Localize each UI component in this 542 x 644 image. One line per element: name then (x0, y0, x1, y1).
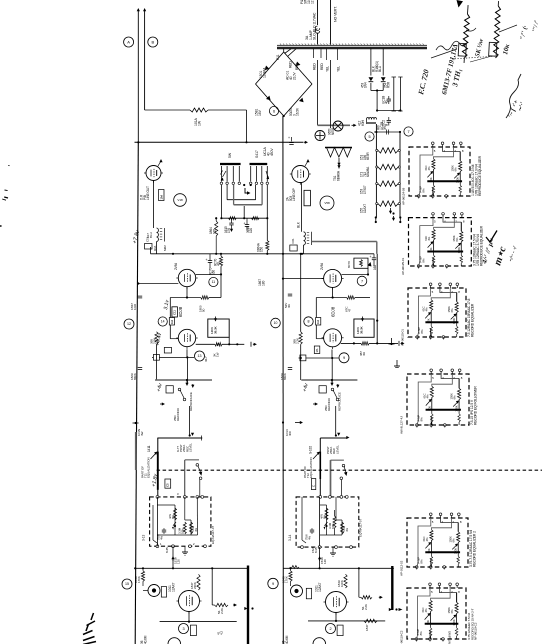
heater winding T51 (325, 147, 352, 149)
wire bus drop RED2 (320, 49, 322, 59)
transformer T1 secondary bus (277, 47, 427, 49)
wire cathode bus R (299, 357, 339, 359)
bridge rectifier D1-D4 diamond (256, 52, 284, 84)
wire V6B cathode down (301, 183, 303, 232)
terminal circle 10 (271, 318, 281, 328)
svg-text:NO VERT.: NO VERT. (334, 6, 338, 22)
node module column a (392, 212, 394, 214)
potentiometer 1411 R (319, 438, 321, 497)
svg-text:9: 9 (343, 356, 345, 360)
svg-text:YEL: YEL (337, 66, 341, 72)
wire heater grey horiz (318, 124, 351, 126)
svg-text:RECORD EQUALIZER 2: RECORD EQUALIZER 2 (473, 531, 477, 567)
choke L1 412 60H (367, 118, 377, 120)
resistor 67C inline R (347, 296, 355, 299)
svg-text:+: + (370, 255, 372, 259)
svg-text:7: 7 (361, 279, 363, 283)
svg-text:S417: S417 (255, 150, 259, 158)
svg-text:2: 2 (329, 627, 331, 631)
component box stage3 R (311, 479, 315, 490)
resistor 1864 120 (215, 221, 218, 236)
resistor 2.2K cathode R (299, 332, 302, 345)
plug-in equalizer module 5 (407, 518, 468, 567)
switch REC/PB L contact b (183, 398, 186, 401)
svg-text:6%: 6% (454, 167, 458, 172)
arrow B+ to stage1 R (319, 558, 321, 562)
svg-text:40: 40 (385, 100, 389, 104)
terminal circle 12 (124, 319, 134, 329)
svg-text:12: 12 (127, 322, 131, 326)
lamp V5 cross circle (315, 131, 325, 141)
tube V1B (178, 329, 195, 346)
wire lamp to heater winding (330, 60, 332, 128)
stray mark left edge 2 (5, 189, 8, 192)
switch S1 wafer bar b (250, 163, 268, 165)
svg-text:450V: 450V (270, 148, 274, 156)
svg-text:4%: 4% (425, 394, 429, 399)
resistor 56 2.2K R (361, 596, 372, 599)
svg-text:3: 3 (182, 627, 184, 631)
svg-text:M22: M22 (163, 245, 167, 251)
plug-in equalizer module 3 (408, 288, 466, 337)
svg-text:6%: 6% (455, 237, 459, 242)
svg-text:RED: RED (320, 63, 324, 70)
svg-text:BLK: BLK (297, 221, 301, 228)
wire switch bus (221, 217, 267, 219)
svg-text:100K: 100K (340, 579, 344, 587)
svg-text:100K: 100K (452, 619, 456, 626)
wire stage1 drop R (358, 568, 360, 597)
thick output bar L (247, 566, 249, 644)
diode D51 (369, 77, 374, 81)
svg-text:60H: 60H (361, 120, 365, 126)
svg-text:17L: 17L (315, 348, 319, 353)
svg-text:AP-96115-01: AP-96115-01 (401, 329, 405, 346)
svg-text:8%: 8% (323, 514, 327, 519)
pencil sketch resistor 1 (462, 5, 471, 63)
capacitor 8C70 160 (208, 260, 212, 262)
terminal circle 6 (269, 106, 278, 115)
wire cathode chain L (154, 254, 156, 282)
switch S1 inner staircase black (226, 185, 228, 200)
svg-text:4%: 4% (194, 527, 198, 532)
pencil sketch arrowhead (457, 0, 464, 8)
component box input R (306, 588, 311, 599)
capacitor 8C70 160 R (373, 254, 375, 258)
eq resistor 3.3M (183, 522, 186, 534)
node on B+ line (245, 141, 247, 143)
handwriting long scrawl (506, 74, 521, 118)
plug-in equalizer module 4 (407, 374, 469, 425)
svg-text:4%: 4% (345, 527, 349, 532)
svg-text:4%: 4% (424, 608, 428, 613)
svg-text:8C?0: 8C?0 (347, 261, 351, 268)
svg-text:N/T&&WS: N/T&&WS (448, 631, 452, 644)
pencil sketch box 1 (458, 43, 466, 56)
svg-text:4%: 4% (427, 166, 431, 171)
switch S1 inner arrow (245, 188, 249, 193)
plate load box R (354, 258, 368, 268)
svg-text:AA-96119-C2: AA-96119-C2 (400, 630, 404, 644)
wire vertical rail to terminal A (137, 9, 139, 142)
switch REC/PB R contact b (336, 398, 339, 401)
svg-text:EQ-NA117-07: EQ-NA117-07 (359, 519, 363, 537)
wire grid chain R (315, 298, 317, 339)
svg-text:176: 176 (227, 228, 231, 233)
svg-text:10: 10 (274, 321, 278, 325)
wire stage1 drop L (211, 568, 213, 605)
wire stage1 top line L (135, 567, 247, 569)
stray mark left edge 3 (0, 225, 2, 227)
svg-text:C51: C51 (146, 237, 150, 242)
svg-text:RECORD EQUALIZER: RECORD EQUALIZER (471, 303, 475, 337)
wire stage1 bottom L (160, 621, 237, 623)
plug-in equalizer module 6 (407, 588, 466, 639)
component box T3 (290, 245, 297, 251)
switch ganging dashed line (157, 469, 542, 471)
input jack L (148, 585, 160, 597)
svg-text:120: 120 (323, 559, 327, 564)
resistor 1849 100K R (344, 574, 347, 588)
svg-text:100K: 100K (455, 405, 459, 412)
svg-text:RECORD: RECORD (327, 397, 331, 411)
svg-text:C5: C5 (166, 483, 170, 487)
wire cathode bus L (152, 356, 194, 358)
svg-text:1M: 1M (159, 195, 163, 200)
svg-text:160: 160 (373, 265, 377, 270)
arrow B+ to stage1 L (172, 558, 174, 562)
switch S1 wire left drop (220, 185, 222, 218)
resistor 56 2.2K L (215, 603, 229, 606)
resistor box stage5 L (159, 190, 165, 201)
svg-text:+: + (288, 136, 290, 140)
tube type box 6DJ8 (172, 307, 178, 317)
capacitor 1615 (229, 222, 233, 224)
wire bus drop to D51 (370, 49, 372, 76)
svg-text:C: C (311, 485, 315, 487)
svg-text:RECORD: RECORD (176, 407, 180, 421)
wire grey out T3 (312, 241, 377, 243)
eq resistor 70K (174, 508, 177, 520)
svg-text:6%: 6% (452, 538, 456, 543)
wire bus drop YEL (326, 49, 328, 61)
svg-text:YEL: YEL (326, 66, 330, 72)
wire left rail (135, 142, 138, 644)
handwriting dash line (431, 49, 457, 58)
svg-text:RED: RED (313, 63, 317, 70)
eq resistor 3.3M R (333, 516, 336, 528)
wire V1B plate out (196, 343, 215, 345)
terminal circle 11 (209, 277, 218, 286)
wire T2 to mid line (156, 242, 158, 254)
svg-text:REPRODUCE EQUALIZER: REPRODUCE EQUALIZER (478, 155, 482, 196)
tube V4A (326, 592, 347, 613)
svg-text:4%: 4% (427, 236, 431, 241)
resistor inline bus a (229, 217, 237, 220)
svg-text:3-14: 3-14 (288, 535, 292, 541)
svg-text:40.6M: 40.6M (143, 635, 147, 644)
svg-text:17907: 17907 (363, 185, 367, 194)
svg-text:15: 15 (125, 582, 129, 586)
resistor mid bottom R (290, 566, 299, 569)
svg-text:EQUALIZATION: EQUALIZATION (309, 457, 313, 478)
svg-text:3-13: 3-13 (142, 535, 146, 541)
ladder resistor R151 (378, 148, 398, 153)
svg-text:+: + (244, 222, 246, 226)
potentiometer 1411 L (157, 438, 159, 497)
component box stage4 R (316, 318, 321, 326)
switch S1 contacts (220, 166, 222, 182)
eq box L terminals bottom (156, 545, 159, 548)
svg-text:C11: C11 (173, 310, 177, 315)
arrow stage1 R (379, 596, 382, 598)
svg-text:16V: 16V (258, 109, 262, 116)
svg-text:210V: 210V (292, 72, 296, 80)
arrow down grid (186, 381, 188, 385)
eq pot arrow L (173, 522, 176, 526)
wire right drop to hline (266, 218, 268, 240)
svg-text:12AX7: 12AX7 (318, 582, 322, 592)
svg-text:8%: 8% (420, 329, 424, 334)
terminal circle B (148, 37, 158, 47)
eq resistor 5.2K (190, 522, 193, 534)
wire switch level R (331, 459, 344, 461)
svg-text:AW-9L127-4J: AW-9L127-4J (400, 416, 404, 434)
ground eq R (332, 547, 334, 553)
wire V3B plate out (341, 342, 361, 344)
wire eq inner drop L (156, 543, 158, 546)
arrow into bar R (389, 609, 391, 611)
node module column b (390, 343, 392, 345)
svg-text:13: 13 (198, 354, 202, 358)
resistor 1864A 150 (266, 241, 269, 251)
diode D52 (381, 77, 386, 81)
tube circle V1B small (174, 194, 187, 207)
svg-text:2.2K: 2.2K (153, 337, 157, 344)
wire V1B cathode down (186, 349, 188, 357)
component box rec eq L (166, 386, 173, 393)
svg-text:NE51: NE51 (331, 127, 335, 135)
wire V3B cathode down R (331, 350, 333, 359)
wire feedback right edge down L (228, 337, 230, 344)
svg-text:1N4: 1N4 (364, 82, 368, 88)
svg-text:EQ-NA117-07: EQ-NA117-07 (211, 526, 215, 544)
wire V1A cathode line (186, 287, 188, 298)
wire V3A cathode (332, 287, 334, 297)
svg-text:47: 47 (348, 308, 352, 312)
terminal circle 9 mid (268, 578, 278, 588)
svg-text:220K: 220K (193, 581, 197, 589)
svg-text:LEVEL: LEVEL (188, 443, 192, 452)
capacitor coupling R (288, 293, 292, 295)
switch REC/PB R contact a (331, 388, 334, 391)
feedback box R (354, 319, 374, 337)
arrow stage4 out L (253, 343, 256, 345)
svg-text:B: B (385, 124, 389, 126)
svg-text:2.2K: 2.2K (364, 603, 368, 610)
eq small cap (162, 529, 166, 531)
tube V6B (292, 166, 309, 183)
switch S1 wire right drop (266, 185, 268, 218)
resistor 2.2K cathode (155, 332, 158, 345)
wire eq out R (319, 547, 321, 568)
wire bus drop to D52 (382, 49, 384, 76)
svg-text:RECORD EQ FOLLOWER: RECORD EQ FOLLOWER (474, 386, 478, 425)
wire bus drop RED (312, 49, 314, 59)
svg-text:8.35: 8.35 (165, 547, 169, 553)
svg-text:8: 8 (308, 320, 310, 324)
handwriting dotted underline (452, 56, 498, 59)
svg-text:38.3K: 38.3K (214, 325, 218, 334)
resistor 1848 170K L (141, 571, 144, 582)
wire pot top line R (320, 437, 347, 439)
wire B+ horizontal line (135, 141, 304, 143)
svg-text:5W: 5W (228, 152, 232, 158)
wire jack ground L (153, 597, 155, 622)
wire pot top line L (157, 437, 202, 439)
arrow into bar L (245, 608, 247, 610)
svg-text:8%: 8% (420, 417, 424, 422)
wire AC line input (330, 0, 332, 45)
svg-text:2.2K: 2.2K (296, 337, 300, 344)
svg-text:6%: 6% (450, 308, 454, 313)
wire plate V3A right (342, 274, 368, 276)
wire ladder right rail (399, 132, 401, 218)
tube circle V5B small (320, 196, 334, 210)
wire stage4 mid horizontal R (316, 297, 346, 299)
terminal circle 14 (158, 317, 167, 326)
tube V2B partial L (168, 638, 181, 644)
svg-text:16.5V: 16.5V (296, 107, 300, 116)
svg-text:40.6M: 40.6M (285, 635, 289, 644)
node mid line junctions (215, 253, 217, 255)
svg-text:9: 9 (272, 582, 274, 586)
component box input L (161, 587, 166, 598)
component box stage1b L (190, 625, 196, 636)
svg-text:6%: 6% (453, 395, 457, 400)
svg-text:36.7: 36.7 (204, 356, 208, 362)
capacitor 1829 860K L (138, 367, 142, 369)
svg-text:R5R: R5R (387, 81, 391, 88)
svg-text:V18: V18 (177, 198, 183, 202)
eq box R terminals top (319, 496, 322, 499)
svg-text:B: B (151, 39, 154, 44)
component box stage1b R (337, 625, 343, 636)
wire ladder left rail (375, 124, 377, 218)
component box stage4b L (164, 347, 171, 353)
svg-text:4%: 4% (425, 307, 429, 312)
svg-text:4.2: 4.2 (220, 631, 224, 635)
svg-text:V58: V58 (324, 201, 330, 205)
wire eq out L (172, 546, 174, 568)
wire rail to grid V1A (138, 283, 178, 285)
eq box R terminals bottom (301, 546, 304, 549)
terminal circle 15 (122, 579, 132, 589)
switch S1 inner staircase grey (233, 185, 235, 205)
svg-text:LINE OUT: LINE OUT (146, 186, 150, 200)
capacitor 3615 (245, 224, 249, 226)
wire tube V2A bottom (188, 612, 190, 622)
switch level L contact (196, 464, 199, 467)
ladder bottom arrow (390, 208, 392, 213)
svg-text:120: 120 (249, 228, 253, 233)
svg-text:120: 120 (212, 229, 216, 234)
pencil sketch resistor 2 (493, 1, 501, 58)
svg-text:4%: 4% (425, 537, 429, 542)
feedback box L (208, 319, 229, 337)
svg-text:112: 112 (170, 319, 174, 324)
component box stage4b R (314, 346, 320, 354)
wire rail to V3A (283, 278, 324, 280)
svg-text:180: 180 (261, 281, 265, 286)
arrow down grid R (331, 381, 333, 385)
tube V3B (324, 329, 342, 347)
svg-text:4%: 4% (160, 535, 164, 540)
svg-text:AP-96125-01: AP-96125-01 (401, 257, 405, 275)
wire grey stage4 L out (155, 379, 212, 381)
component tall box R (304, 190, 310, 206)
svg-text:NF-96119-C2: NF-96119-C2 (474, 622, 478, 640)
component box 60A (145, 244, 153, 250)
switch level R contact (342, 464, 345, 467)
wire bus to bridge RED leads (285, 49, 292, 54)
svg-text:C61: C61 (291, 238, 295, 243)
capacitor rail coupling L (138, 295, 142, 297)
capacitor can wires (393, 77, 395, 111)
wire switch to pot L (189, 406, 191, 435)
wire stage4 mid horizontal (170, 297, 200, 299)
eq resistor 70K R (325, 508, 328, 520)
plug-in equalizer module 1 (409, 147, 470, 196)
svg-text:LEVEL: LEVEL (335, 445, 339, 454)
node bridge bottom (283, 115, 285, 117)
svg-text:6DJ8: 6DJ8 (178, 306, 183, 317)
resistor 387 inline R (361, 342, 369, 345)
arrow tube V6A plate (158, 161, 161, 166)
resistor 1800 inline (201, 296, 209, 299)
svg-text:5: 5 (368, 135, 370, 139)
wire switch level L (185, 459, 199, 461)
wire bus to bridge (283, 49, 285, 53)
arrow stage1 L (233, 604, 236, 606)
svg-text:8%: 8% (171, 514, 175, 519)
wire to filter (376, 91, 378, 111)
handwriting 1141 bottom left (83, 613, 96, 644)
wire T3 to mid line (303, 245, 305, 254)
svg-text:6DJ8: 6DJ8 (331, 306, 336, 317)
svg-text:+: + (206, 258, 208, 262)
fuse F1 1A slo-blo (317, 0, 319, 25)
arrow rec eq R (313, 403, 317, 405)
svg-text:1W: 1W (198, 120, 202, 126)
svg-text:R11: R11 (276, 54, 280, 60)
wire stage1 top line R (283, 567, 394, 569)
terminal circle 16 (304, 317, 313, 326)
stray mark left edge 1 (8, 164, 9, 166)
transformer T3 coil (304, 232, 306, 245)
svg-text:2.2K: 2.2K (220, 607, 224, 614)
tube V1A (178, 269, 195, 286)
svg-text:REPRODUCE: REPRODUCE (338, 392, 342, 411)
svg-text:BLU: BLU (149, 232, 153, 238)
svg-text:8%: 8% (419, 559, 423, 564)
svg-text:120: 120 (177, 559, 181, 564)
pilot lamp PL1 (333, 121, 343, 131)
pencil sketch box 2 (489, 42, 497, 56)
svg-text:AP-96124-93: AP-96124-93 (402, 187, 406, 205)
wire cathode chain R (300, 254, 302, 332)
svg-text:150: 150 (260, 247, 264, 252)
